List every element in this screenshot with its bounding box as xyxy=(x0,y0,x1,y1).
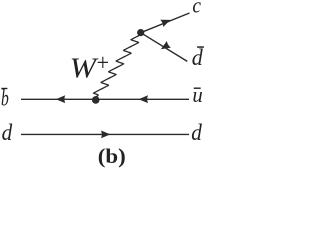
node: upper vertex dot xyxy=(137,29,144,36)
arrow on dbar line (points up-left toward vertex) xyxy=(159,41,171,53)
svg-text:d: d xyxy=(192,45,203,70)
svg-text:c: c xyxy=(192,0,201,17)
wire: vertex to dbar quark line xyxy=(141,33,188,62)
svg-text:d: d xyxy=(2,120,13,145)
node: lower vertex dot xyxy=(92,96,100,104)
wire: vertex to c quark line xyxy=(141,13,190,33)
wire: d-d quark line xyxy=(21,133,189,135)
wire: W+ boson wavy propagator xyxy=(94,33,141,97)
arrow on d line (points right) xyxy=(101,131,110,139)
svg-text:(b): (b) xyxy=(98,144,126,168)
svg-text:+: + xyxy=(97,50,109,76)
svg-text:b: b xyxy=(1,86,9,112)
svg-text:d: d xyxy=(191,120,202,145)
arrow on c line (points up-right) xyxy=(160,16,172,27)
svg-text:W: W xyxy=(70,53,99,84)
arrow on ubar line right segment (points left) xyxy=(139,95,148,103)
arrow on bbar line left segment (points left) xyxy=(56,95,65,103)
wire: bbar-ubar quark line xyxy=(21,98,189,100)
svg-text:u: u xyxy=(192,82,202,107)
